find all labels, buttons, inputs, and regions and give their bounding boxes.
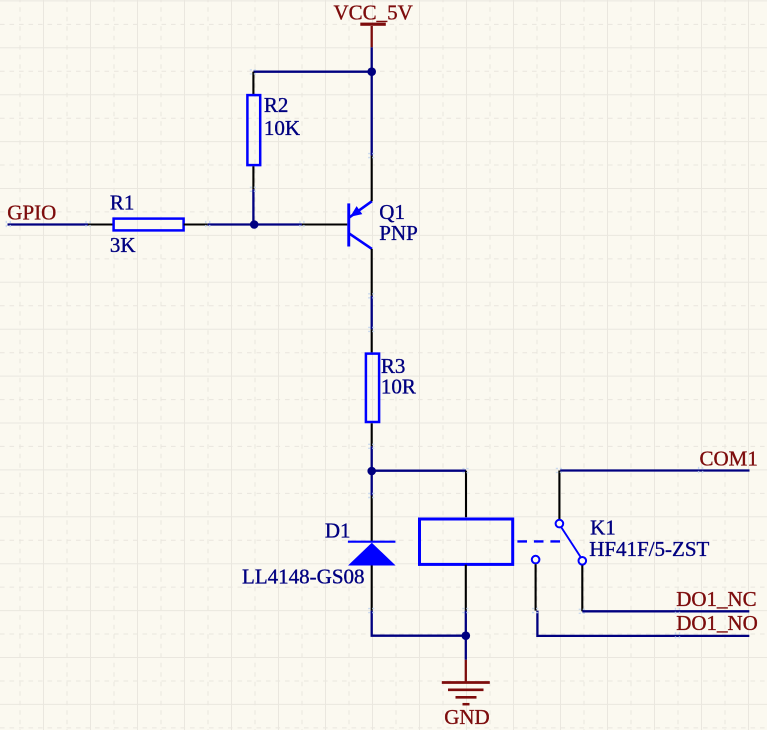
resistor R3 <box>366 329 379 446</box>
svg-text:DO1_NC: DO1_NC <box>676 587 757 611</box>
junction node base <box>250 220 259 229</box>
wire GPIO to R1 <box>8 223 89 225</box>
wire VCC junction to R2 <box>253 71 371 73</box>
power port VCC_5V <box>334 1 413 48</box>
pin hotspot markers <box>6 70 702 640</box>
wire DO1_NC <box>582 610 749 612</box>
svg-text:10K: 10K <box>264 116 300 140</box>
svg-text:R1: R1 <box>110 191 135 215</box>
wire VCC junction down to Q1 emitter pin <box>371 72 373 156</box>
resistor R2 <box>247 72 260 190</box>
wire ground node to GND <box>465 636 467 660</box>
svg-text:LL4148-GS08: LL4148-GS08 <box>242 564 365 588</box>
wire R2 to base node <box>252 189 254 224</box>
svg-text:DO1_NO: DO1_NO <box>676 611 758 635</box>
svg-text:10R: 10R <box>381 374 416 398</box>
wire coil node down to D1 cathode <box>371 471 373 496</box>
wire base junction to Q1 base pin <box>254 223 302 225</box>
junction node VCC <box>367 67 376 76</box>
wire net VCC_5V stem <box>371 47 373 71</box>
wire R3 to coil node <box>371 446 373 471</box>
resistor R1 <box>88 219 208 231</box>
wire Q1 collector to R3 <box>371 296 373 330</box>
svg-text:GPIO: GPIO <box>7 201 56 225</box>
diode D1 <box>348 496 396 611</box>
power port GND <box>442 660 490 729</box>
wire coil node to relay coil pin <box>372 470 466 472</box>
svg-text:HF41F/5-ZST: HF41F/5-ZST <box>589 537 709 561</box>
svg-text:R2: R2 <box>264 93 289 117</box>
svg-text:3K: 3K <box>110 233 136 257</box>
svg-text:PNP: PNP <box>379 221 418 245</box>
relay K1 <box>420 471 587 612</box>
svg-text:COM1: COM1 <box>700 446 758 470</box>
svg-text:K1: K1 <box>590 516 616 540</box>
wire COM1 <box>560 469 749 471</box>
junction node ground <box>462 631 471 640</box>
wire DO1_NO <box>537 611 749 636</box>
svg-text:GND: GND <box>444 705 490 729</box>
transistor Q1 <box>302 156 372 296</box>
wire R1 to base junction <box>208 223 255 225</box>
wire D1 anode to ground node <box>372 611 466 636</box>
svg-text:D1: D1 <box>325 519 351 543</box>
svg-text:VCC_5V: VCC_5V <box>334 1 413 25</box>
wire relay coil pin to ground node <box>465 611 467 636</box>
junction node coil top <box>367 467 376 476</box>
